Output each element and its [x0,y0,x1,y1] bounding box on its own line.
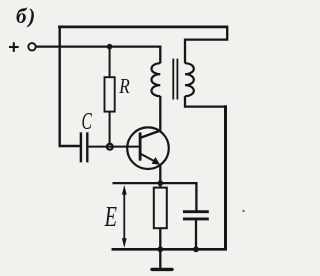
svg-text:E: E [104,202,117,233]
resistor Re body [154,188,167,229]
wire emitter down to node [159,165,161,183]
paper background [0,0,250,276]
wire bottom rail [112,248,227,251]
svg-text:б): б) [16,4,37,28]
transformer left winding (collector coil) [152,63,161,96]
transistor emitter diagonal with arrow [141,154,157,163]
capacitor Ce plates [183,212,209,219]
node base junction (small open circle) [107,144,113,150]
svg-text:C: C [82,109,93,135]
node emitter junction [158,180,164,186]
node at R top (junction dot) [107,44,113,50]
transformer core [173,59,177,100]
plus polarity sign [9,42,19,52]
transformer right winding (feedback coil) [185,63,194,96]
resistor R body [105,77,115,111]
transistor VT1 circle [127,127,169,169]
svg-text:R: R [118,76,130,99]
wire left vertical + capacitor C left wire [60,27,80,146]
wire from + terminal to left winding top (corner at x=160) [36,47,161,64]
ground lead [159,249,161,268]
ground bar [152,268,172,271]
wire capacitor C to base [89,146,139,148]
ink speck artifact [242,210,244,212]
capacitor Ce bottom lead [195,220,197,249]
capacitor C plates [81,132,87,162]
transistor base bar [139,132,142,160]
wire right winding bottom to right rail [185,96,226,107]
wire right step from top bar down to right winding [185,27,227,63]
resistor Re leads [159,185,161,249]
wire right rail vertical [224,105,227,249]
wire collector to left winding bottom [159,96,161,131]
node Re bottom [157,246,163,252]
transistor collector diagonal [141,131,161,138]
wire emitter horizontal and down to capacitor [113,183,197,211]
E source arrow (double headed) [123,192,125,242]
wire top bar (feedback rail) [58,25,228,28]
node Ce bottom [193,246,199,252]
resistor R leads [109,47,111,145]
terminal circle (+ input) [28,43,35,50]
